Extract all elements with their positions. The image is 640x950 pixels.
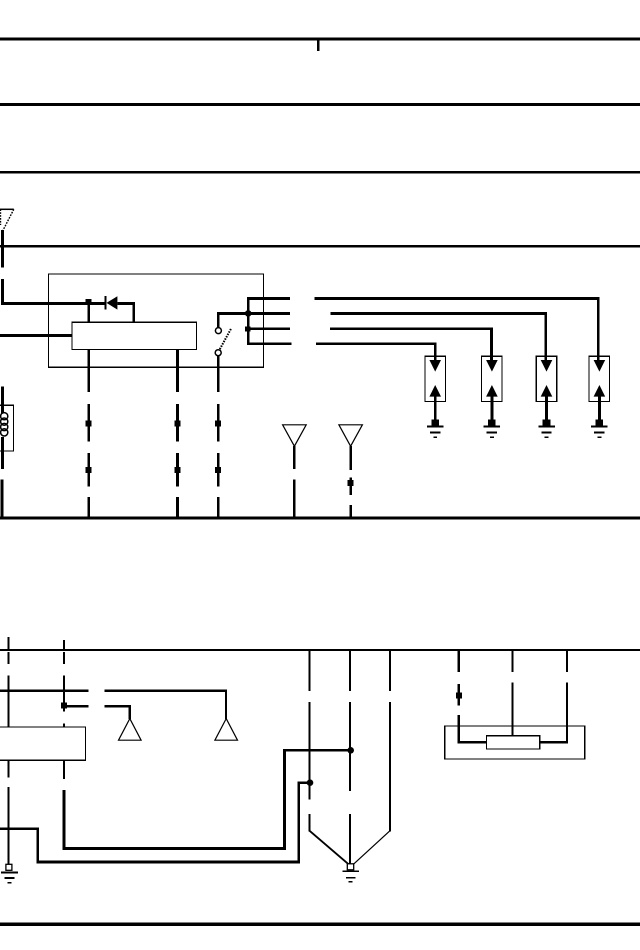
switch S1 top contact [215, 328, 221, 334]
wire below block at x=64 becoming bus P [63, 761, 65, 780]
vertical at x=567 (sender return) [566, 651, 568, 744]
wire into coil from above [1, 387, 4, 414]
bus line L3 [0, 171, 640, 174]
wire stub above L6 at x=8.5 [8, 637, 10, 649]
relay box U1 (flasher relay outline) [49, 274, 264, 367]
connector triangle T5 (apex up) [215, 719, 238, 741]
wire W1 lower segment after connector gap [1, 279, 4, 305]
vertical at x=511.8 (sender wiper) [511, 651, 513, 736]
wire stub above L6 at x=64 [63, 640, 65, 649]
bus line L5 [0, 517, 640, 520]
wire coil terminal B down (x=177.5) [176, 350, 179, 393]
wire below coil [1, 437, 4, 469]
wire left terminal to R1 [458, 741, 487, 743]
lamp DS1 [425, 356, 446, 419]
relay terminal wire A dashed run down to L5 [86, 404, 92, 519]
wire W1 horizontal into relay (to diode anode) [1, 302, 105, 305]
connector triangle T2 [283, 425, 307, 446]
switch S1 blade (dashed) [220, 328, 231, 349]
junction square J1 on diode anode wire [85, 299, 91, 305]
output wire A left segment [247, 297, 290, 300]
connector triangle T3 [339, 425, 363, 446]
bus wire P: down, right, up, to node on V2 [63, 749, 352, 850]
output wire D left segment [247, 343, 291, 346]
output wire C right segment [330, 327, 493, 330]
ground for DS2 [484, 419, 501, 438]
vertical tie bar joining output lines [247, 297, 250, 345]
output wire B drop to lamp DS3 [544, 312, 547, 361]
output wire D right segment [316, 343, 437, 346]
output wire A drop to lamp DS4 [597, 297, 600, 361]
wire from diode D1 to coil top [117, 302, 134, 305]
wire from S1 top contact up [217, 314, 220, 328]
wire from J1 down to relay coil [87, 304, 90, 323]
junction dot Q on V1 [307, 779, 314, 786]
output wire C drop to lamp DS2 [490, 327, 493, 361]
wire below block at x=8.5 to ground [8, 761, 10, 867]
wire below T2 [293, 446, 296, 469]
node tap tick on L1 [317, 40, 320, 51]
V3 diagonal to ground G2 [354, 831, 390, 864]
junction dot N1 [245, 310, 252, 317]
solenoid coil windings [1, 413, 8, 436]
wire run x=8.5 below L6 [8, 652, 10, 727]
output wire B right segment [331, 312, 547, 315]
sender unit box [445, 726, 585, 759]
ground for DS3 [538, 419, 555, 438]
diode D1 cathode bar [104, 296, 106, 309]
lamp DS2 [482, 356, 503, 419]
connector triangle T4 (apex up) [119, 719, 142, 741]
vertical at x=458.8 (sender feed) [456, 651, 462, 744]
output wire C left segment [247, 327, 290, 330]
wire coil terminal A down (x=88.7) [87, 350, 90, 393]
branch wire H2 (y=706.3) from junction at x=64 [64, 705, 131, 719]
output wire D drop to lamp DS1 [434, 343, 437, 362]
connector triangle T1 (page-edge connector, top left) [0, 209, 14, 230]
junction square J2 on tie bar [245, 326, 251, 331]
output wire A right segment [314, 297, 599, 300]
vertical V1 (x=309.6) [309, 651, 311, 831]
wire below T3 [349, 446, 352, 470]
junction dot P on V2 [347, 747, 354, 754]
wire from S1 to junction node [217, 312, 248, 315]
wire below T2 after gap to L5 [293, 479, 296, 519]
bus line L1 (top power rail) [0, 37, 640, 40]
ground G2 [342, 864, 359, 883]
output wire B left segment [247, 312, 290, 315]
wire below T3 last segment to L5 [349, 505, 352, 519]
resistor R1 inside sender [486, 736, 539, 749]
lamp DS3 [536, 356, 557, 419]
switch S1 bottom contact [215, 350, 221, 356]
wire right terminal to R1 [540, 741, 568, 743]
wire run x=64 below L6 [61, 652, 67, 727]
relay terminal wire B dashed run down to L5 [175, 404, 181, 519]
wire W2 from page edge into coil left [0, 334, 72, 337]
bus line L7 (bottom rail) [0, 923, 640, 927]
ground for DS4 [591, 419, 608, 438]
vertical V2 (x=350) [349, 651, 351, 863]
switch output wire dashed run down to L5 [215, 404, 221, 519]
wire vertical from diode wire down to coil [132, 303, 135, 323]
V1 diagonal to ground G2 [310, 831, 349, 864]
bus wire Q: from page edge, down, right, up, to node on V1 [0, 781, 311, 863]
bus line L4 [0, 245, 640, 248]
vertical V3 (x=389.9) [389, 651, 391, 831]
wire below coil after gap to L5 [1, 479, 4, 519]
ground for DS1 [427, 419, 444, 438]
bus line L2 [0, 103, 640, 106]
wire below T3 short dash with connector square [349, 477, 352, 495]
solenoid coil box at left [0, 405, 14, 451]
relay coil L5 rectangle [72, 322, 197, 349]
lamp DS4 [589, 356, 610, 419]
diode D1 triangle [107, 296, 118, 309]
ground G1 [1, 864, 18, 883]
bus line L6 (lower section) [0, 649, 640, 651]
wire W1 vertical from T1 through L4 [1, 230, 4, 268]
branch wire H1 (y=690.6) [0, 690, 227, 720]
wire from S1 bottom contact down [217, 356, 220, 392]
connector block box (lower left) [0, 727, 86, 760]
